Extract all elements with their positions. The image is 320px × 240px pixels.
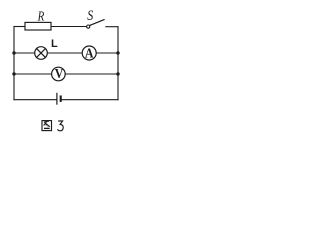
node: right rail / voltmeter branch junction [116,72,119,75]
node: right rail / lamp branch junction [116,51,119,54]
caption: figure number 3 [58,121,64,131]
caption: character 图 [42,121,52,131]
wire: switch to top-right corner [106,26,118,28]
svg-text:R: R [37,8,45,24]
resistor R [25,22,51,30]
switch S [87,20,104,29]
svg-text:A: A [85,44,94,60]
wire: battery to bottom-right [62,99,118,101]
wire: voltmeter branch row [14,73,118,75]
wire: lamp-ammeter branch row [14,52,118,54]
svg-text:L: L [51,38,58,50]
node: left rail / lamp branch junction [12,51,15,54]
node: left rail / voltmeter branch junction [12,72,15,75]
wire: left rail [13,27,15,100]
lamp L [35,47,48,60]
wire: right rail [117,27,119,100]
battery cell [57,93,61,104]
wire: top-left segment [14,26,25,28]
wire: bottom-left to battery [14,99,56,101]
ammeter U1 circle [82,46,96,60]
wire: resistor to switch [51,26,87,28]
voltmeter U2 circle [52,67,66,81]
svg-text:V: V [55,65,64,81]
svg-text:S: S [87,7,93,24]
